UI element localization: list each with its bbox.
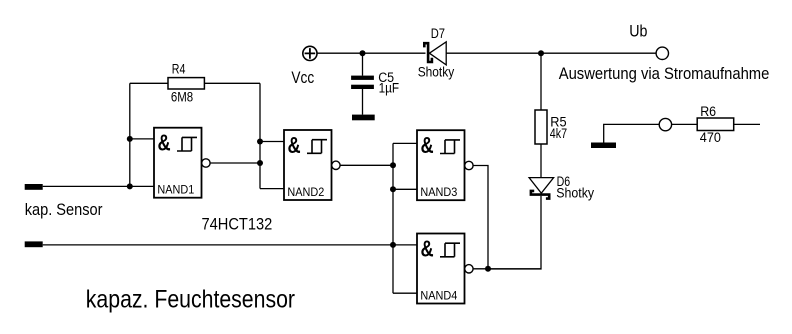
junction NAND1 out to NAND2 [257,160,263,166]
wire terminal to R6 [672,123,698,125]
wire NAND4 input A [393,244,417,246]
wire NAND3 input B [393,188,417,190]
wire NAND2 output [340,164,393,166]
wire NAND2 input A [260,141,284,143]
wire NAND2 input B [260,188,284,190]
junction NAND1 input A branch [127,136,133,142]
junction sensor top / feedback [127,183,133,189]
wire top supply rail D7 to Ub terminal [446,52,656,54]
wire R4 right lead [204,82,260,84]
wire sensor top to NAND1 input B [43,185,154,187]
resistor R5 [535,110,547,144]
wire R5 to D6 [540,144,542,178]
sensor terminal bottom [25,241,43,247]
NAND gate U1 NAND4 [417,234,465,304]
svg-text:6M8: 6M8 [171,90,193,105]
wire NAND3/NAND4 input bus vertical [392,143,394,293]
sensor terminal top [25,184,43,190]
svg-text:Ub: Ub [629,23,647,41]
svg-text:NAND4: NAND4 [420,288,457,302]
wire top supply rail Vcc to D7 [317,52,425,54]
wire feedback right vertical [259,83,261,188]
diode D6 Schottky [529,178,554,199]
junction NAND2 input A branch [257,139,263,145]
power symbol Vcc [303,46,317,60]
junction NAND3 input B branch [390,186,396,192]
ground below C5 [352,115,375,121]
svg-text:R6: R6 [700,104,716,119]
terminal R6 line [659,118,671,130]
svg-text:&: & [288,133,301,159]
junction NAND2 out arrival [390,162,396,168]
resistor R6 [697,118,734,131]
svg-text:74HCT132: 74HCT132 [202,215,273,233]
svg-text:&: & [421,236,434,262]
wire R5 top lead [540,53,542,110]
svg-text:kap. Sensor: kap. Sensor [25,201,103,219]
wire NAND3 output to node [473,166,488,270]
NAND gate U1 NAND3 [417,130,465,200]
wire ground to terminal [604,124,660,142]
wire sensor bottom to NAND4 input A [43,244,393,246]
diode D7 Schottky [424,42,446,65]
wire NAND4 output [473,268,541,270]
wire NAND1 input A [130,138,154,140]
svg-text:1µF: 1µF [379,81,400,96]
junction at R5 top [538,50,544,56]
wire NAND4 input B [393,292,417,294]
wire D6 to output node [488,196,541,269]
terminal Ub [656,47,668,59]
wire C5 top lead [362,53,364,75]
svg-text:R4: R4 [172,62,186,77]
output bubble NAND4 [465,265,473,273]
svg-text:Shotky: Shotky [556,185,594,200]
ground right circuit [591,143,616,149]
svg-text:Auswertung via Stromaufnahme: Auswertung via Stromaufnahme [559,65,770,83]
NAND gate U1 NAND2 [284,130,332,200]
svg-text:470: 470 [700,130,721,145]
junction at C5 top [360,50,366,56]
wire R6 right lead [734,123,760,125]
NAND gate U1 NAND1 [154,128,202,198]
wire NAND3 input A [393,142,417,144]
output bubble NAND1 [202,159,210,167]
junction sensor bottom arrival [390,242,396,248]
resistor R4 [168,78,204,89]
output bubble NAND2 [332,161,340,169]
svg-text:NAND2: NAND2 [287,185,324,199]
junction output node [485,266,491,272]
wire NAND1 output [210,162,260,164]
svg-text:Shotky: Shotky [418,64,455,79]
wire C5 bottom lead [362,89,364,115]
svg-text:Vcc: Vcc [291,69,314,87]
svg-text:NAND1: NAND1 [157,183,194,197]
wire feedback left vertical [129,83,131,186]
svg-text:4k7: 4k7 [550,126,567,141]
capacitor C5 [351,76,374,89]
svg-text:kapaz. Feuchtesensor: kapaz. Feuchtesensor [86,286,296,314]
output bubble NAND3 [465,161,473,169]
svg-text:&: & [158,131,171,157]
svg-text:D7: D7 [431,26,445,41]
wire R4 left lead [130,82,168,84]
svg-text:NAND3: NAND3 [420,185,457,199]
svg-text:&: & [421,133,434,159]
